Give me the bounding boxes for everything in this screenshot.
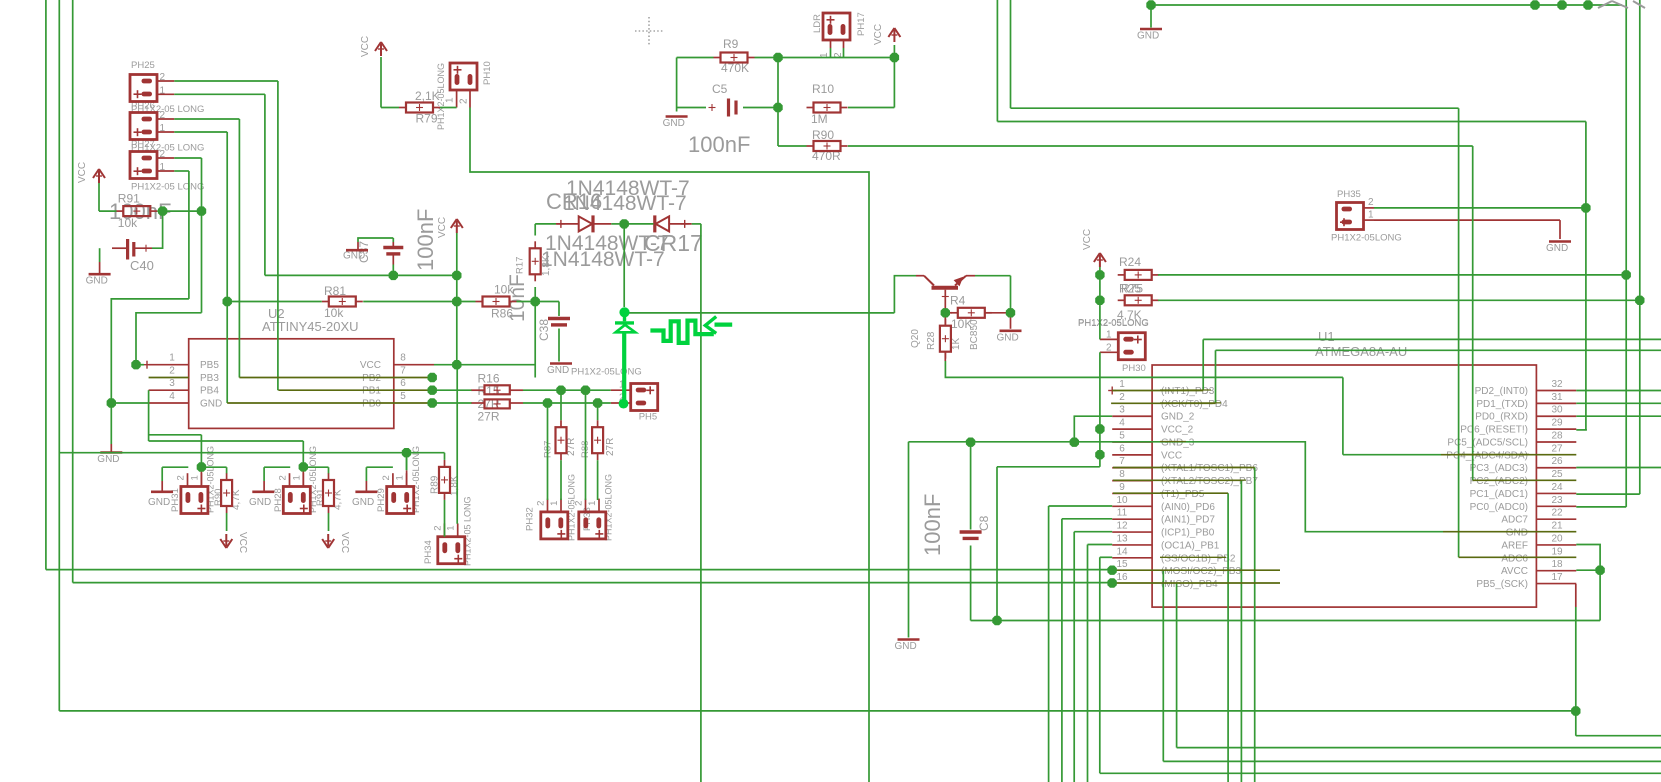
svg-text:R28: R28 bbox=[926, 331, 937, 350]
svg-text:PH35: PH35 bbox=[1337, 189, 1361, 200]
svg-text:CR17: CR17 bbox=[644, 230, 703, 256]
svg-text:PH34: PH34 bbox=[423, 540, 434, 564]
svg-text:GND_2: GND_2 bbox=[1161, 412, 1195, 423]
svg-text:C5: C5 bbox=[712, 82, 728, 96]
svg-text:27: 27 bbox=[1551, 443, 1563, 454]
svg-text:15: 15 bbox=[1116, 559, 1128, 570]
svg-text:2: 2 bbox=[176, 475, 187, 480]
svg-text:VCC_2: VCC_2 bbox=[1161, 425, 1194, 436]
svg-text:2: 2 bbox=[1119, 392, 1125, 403]
svg-text:ADC6: ADC6 bbox=[1501, 553, 1528, 564]
svg-text:21: 21 bbox=[1551, 521, 1563, 532]
svg-text:GND: GND bbox=[352, 497, 374, 508]
svg-text:LDR: LDR bbox=[812, 14, 823, 33]
svg-text:AVCC: AVCC bbox=[1501, 566, 1528, 577]
svg-text:27R: 27R bbox=[478, 410, 500, 424]
svg-text:8: 8 bbox=[1119, 469, 1125, 480]
svg-text:VCC: VCC bbox=[873, 24, 884, 45]
svg-text:VCC: VCC bbox=[1161, 450, 1182, 461]
svg-text:2: 2 bbox=[1368, 197, 1374, 208]
svg-text:(T1)_PD5: (T1)_PD5 bbox=[1161, 489, 1205, 500]
svg-text:C38: C38 bbox=[537, 319, 551, 341]
svg-text:10k: 10k bbox=[494, 283, 514, 297]
svg-text:GND: GND bbox=[663, 118, 685, 129]
svg-text:100nF: 100nF bbox=[920, 494, 945, 556]
svg-text:1: 1 bbox=[446, 525, 457, 530]
svg-text:PD0_(RXD): PD0_(RXD) bbox=[1475, 412, 1528, 423]
svg-text:CR16: CR16 bbox=[546, 189, 602, 214]
svg-text:7: 7 bbox=[1119, 456, 1125, 467]
svg-text:(MOSI/OC2)_PB3: (MOSI/OC2)_PB3 bbox=[1161, 566, 1241, 577]
svg-text:PB1: PB1 bbox=[362, 386, 381, 397]
svg-text:VCC: VCC bbox=[339, 532, 350, 553]
svg-text:29: 29 bbox=[1551, 418, 1563, 429]
svg-text:PD1_(TXD): PD1_(TXD) bbox=[1476, 399, 1528, 410]
svg-text:(SS/OC1B)_PB2: (SS/OC1B)_PB2 bbox=[1161, 553, 1236, 564]
svg-text:PH10: PH10 bbox=[482, 61, 493, 85]
svg-text:PC3_(ADC3): PC3_(ADC3) bbox=[1470, 463, 1528, 474]
svg-text:9: 9 bbox=[1119, 482, 1125, 493]
svg-text:VCC: VCC bbox=[360, 360, 381, 371]
svg-text:Q20: Q20 bbox=[910, 329, 921, 348]
svg-text:PB5_(SCK): PB5_(SCK) bbox=[1476, 579, 1528, 590]
svg-text:8: 8 bbox=[400, 353, 406, 364]
svg-text:R4: R4 bbox=[950, 294, 966, 308]
svg-text:(AIN0)_PD6: (AIN0)_PD6 bbox=[1161, 502, 1215, 513]
svg-text:GND: GND bbox=[86, 276, 108, 287]
svg-text:PC1_(ADC1): PC1_(ADC1) bbox=[1470, 489, 1528, 500]
svg-text:GND_3: GND_3 bbox=[1161, 437, 1195, 448]
svg-text:5: 5 bbox=[1119, 430, 1125, 441]
svg-text:VCC: VCC bbox=[77, 162, 88, 183]
svg-text:16: 16 bbox=[1116, 572, 1128, 583]
svg-text:R91: R91 bbox=[315, 489, 326, 506]
svg-text:1: 1 bbox=[169, 353, 175, 364]
svg-text:13: 13 bbox=[1116, 533, 1128, 544]
svg-text:AREF: AREF bbox=[1501, 540, 1528, 551]
svg-text:(MISO)_PB4: (MISO)_PB4 bbox=[1161, 579, 1218, 590]
svg-text:ADC7: ADC7 bbox=[1501, 515, 1528, 526]
svg-text:3: 3 bbox=[169, 378, 175, 389]
svg-text:GND: GND bbox=[97, 454, 119, 465]
svg-text:(ICP1)_PB0: (ICP1)_PB0 bbox=[1161, 528, 1215, 539]
svg-text:R90: R90 bbox=[213, 489, 224, 506]
svg-text:GND: GND bbox=[200, 399, 222, 410]
svg-text:1: 1 bbox=[1368, 210, 1374, 221]
svg-text:R91: R91 bbox=[118, 192, 140, 206]
svg-text:R9: R9 bbox=[723, 37, 739, 51]
svg-text:1: 1 bbox=[291, 475, 302, 480]
svg-text:PD2_(INT0): PD2_(INT0) bbox=[1475, 386, 1528, 397]
svg-text:C40: C40 bbox=[130, 258, 154, 273]
svg-text:28: 28 bbox=[1551, 430, 1563, 441]
svg-text:R24: R24 bbox=[1119, 255, 1141, 269]
svg-text:PH1X2-05LONG: PH1X2-05LONG bbox=[571, 367, 642, 378]
svg-text:PB4: PB4 bbox=[200, 386, 219, 397]
svg-text:20: 20 bbox=[1551, 533, 1563, 544]
svg-text:C37: C37 bbox=[357, 241, 371, 263]
svg-text:14: 14 bbox=[1116, 546, 1128, 557]
svg-text:1,8K: 1,8K bbox=[541, 255, 552, 276]
svg-text:PC2_(ADC2): PC2_(ADC2) bbox=[1470, 476, 1528, 487]
svg-text:PH5: PH5 bbox=[639, 412, 657, 423]
svg-text:32: 32 bbox=[1551, 379, 1563, 390]
svg-text:PH1X2-05LONG: PH1X2-05LONG bbox=[1331, 233, 1402, 244]
svg-text:PB5: PB5 bbox=[200, 360, 219, 371]
svg-text:(OC1A)_PB1: (OC1A)_PB1 bbox=[1161, 540, 1220, 551]
svg-text:3: 3 bbox=[1119, 405, 1125, 416]
svg-text:2: 2 bbox=[381, 475, 392, 480]
svg-text:1: 1 bbox=[1119, 379, 1125, 390]
svg-text:6: 6 bbox=[1119, 443, 1125, 454]
svg-text:2: 2 bbox=[536, 501, 547, 506]
svg-text:GND: GND bbox=[1137, 31, 1159, 42]
svg-text:10k: 10k bbox=[324, 306, 344, 320]
svg-text:PC5_(ADC5/SCL): PC5_(ADC5/SCL) bbox=[1447, 437, 1528, 448]
svg-text:(XCK/T0)_PD4: (XCK/T0)_PD4 bbox=[1161, 399, 1228, 410]
svg-text:ATMEGA8A-AU: ATMEGA8A-AU bbox=[1315, 344, 1407, 359]
svg-text:1: 1 bbox=[587, 501, 598, 506]
svg-text:6: 6 bbox=[400, 378, 406, 389]
svg-text:23: 23 bbox=[1551, 495, 1563, 506]
svg-text:VCC: VCC bbox=[237, 532, 248, 553]
svg-text:1: 1 bbox=[189, 475, 200, 480]
svg-text:BC850: BC850 bbox=[969, 319, 980, 350]
svg-text:1: 1 bbox=[445, 97, 456, 103]
svg-text:PH1X2-05LONG: PH1X2-05LONG bbox=[1078, 318, 1149, 329]
svg-text:4: 4 bbox=[169, 391, 175, 402]
svg-text:R86: R86 bbox=[491, 307, 513, 321]
svg-text:100nF: 100nF bbox=[413, 209, 438, 271]
svg-text:GND: GND bbox=[148, 497, 170, 508]
svg-text:31: 31 bbox=[1551, 392, 1563, 403]
svg-text:1M: 1M bbox=[811, 112, 828, 126]
svg-text:PH25: PH25 bbox=[131, 60, 155, 71]
svg-text:100nF: 100nF bbox=[688, 132, 750, 157]
svg-text:GND: GND bbox=[1546, 243, 1568, 254]
svg-text:22: 22 bbox=[1551, 508, 1563, 519]
svg-text:R10: R10 bbox=[812, 82, 834, 96]
svg-text:U1: U1 bbox=[1318, 329, 1335, 344]
svg-text:GND: GND bbox=[895, 641, 917, 652]
svg-text:PH17: PH17 bbox=[856, 12, 867, 36]
svg-text:27R: 27R bbox=[566, 438, 577, 456]
svg-text:C8: C8 bbox=[977, 515, 991, 531]
svg-text:2: 2 bbox=[278, 475, 289, 480]
svg-text:12: 12 bbox=[1116, 521, 1128, 532]
svg-text:2: 2 bbox=[459, 98, 470, 104]
svg-text:1K: 1K bbox=[951, 337, 962, 350]
svg-text:VCC: VCC bbox=[360, 36, 371, 57]
svg-text:25: 25 bbox=[1551, 469, 1563, 480]
svg-text:PH32: PH32 bbox=[524, 507, 535, 531]
svg-text:2,1K: 2,1K bbox=[415, 89, 440, 103]
svg-text:PB2: PB2 bbox=[362, 373, 381, 384]
svg-text:R90: R90 bbox=[812, 128, 834, 142]
svg-text:ATTINY45-20XU: ATTINY45-20XU bbox=[262, 319, 359, 334]
svg-text:24: 24 bbox=[1551, 482, 1563, 493]
svg-text:30: 30 bbox=[1551, 405, 1563, 416]
svg-text:GND: GND bbox=[1506, 528, 1528, 539]
svg-text:19: 19 bbox=[1551, 546, 1563, 557]
svg-text:VCC: VCC bbox=[1082, 229, 1093, 250]
svg-text:27R: 27R bbox=[605, 438, 616, 456]
svg-text:1: 1 bbox=[395, 475, 406, 480]
svg-text:PB3: PB3 bbox=[200, 373, 219, 384]
svg-text:VCC: VCC bbox=[437, 217, 448, 238]
svg-text:PH1X2-05 LONG: PH1X2-05 LONG bbox=[131, 182, 204, 193]
svg-text:7: 7 bbox=[400, 366, 406, 377]
svg-text:17: 17 bbox=[1551, 572, 1563, 583]
svg-text:GND: GND bbox=[547, 365, 569, 376]
svg-text:(XTAL2/TOSC2)_PB7: (XTAL2/TOSC2)_PB7 bbox=[1161, 476, 1258, 487]
svg-text:18: 18 bbox=[1551, 559, 1563, 570]
svg-text:R17: R17 bbox=[515, 257, 526, 274]
svg-text:PC6_(RESET!): PC6_(RESET!) bbox=[1460, 425, 1528, 436]
svg-text:PB0: PB0 bbox=[362, 399, 381, 410]
svg-text:PH30: PH30 bbox=[1122, 363, 1146, 374]
svg-text:(XTAL1/TOSC1)_PB6: (XTAL1/TOSC1)_PB6 bbox=[1161, 463, 1258, 474]
svg-text:(AIN1)_PD7: (AIN1)_PD7 bbox=[1161, 515, 1215, 526]
svg-text:10k: 10k bbox=[118, 216, 138, 230]
svg-text:2: 2 bbox=[432, 525, 443, 530]
svg-text:11: 11 bbox=[1117, 508, 1128, 519]
svg-text:26: 26 bbox=[1551, 456, 1563, 467]
svg-text:GND: GND bbox=[997, 332, 1019, 343]
svg-text:1: 1 bbox=[549, 501, 560, 506]
svg-text:(INT1)_PD3: (INT1)_PD3 bbox=[1161, 386, 1215, 397]
svg-text:PC0_(ADC0): PC0_(ADC0) bbox=[1470, 502, 1528, 513]
svg-text:GND: GND bbox=[249, 497, 271, 508]
svg-text:4: 4 bbox=[1119, 418, 1125, 429]
svg-text:5: 5 bbox=[400, 391, 406, 402]
svg-text:10: 10 bbox=[1116, 495, 1128, 506]
svg-text:2: 2 bbox=[169, 366, 175, 377]
svg-text:R75: R75 bbox=[1121, 282, 1143, 296]
